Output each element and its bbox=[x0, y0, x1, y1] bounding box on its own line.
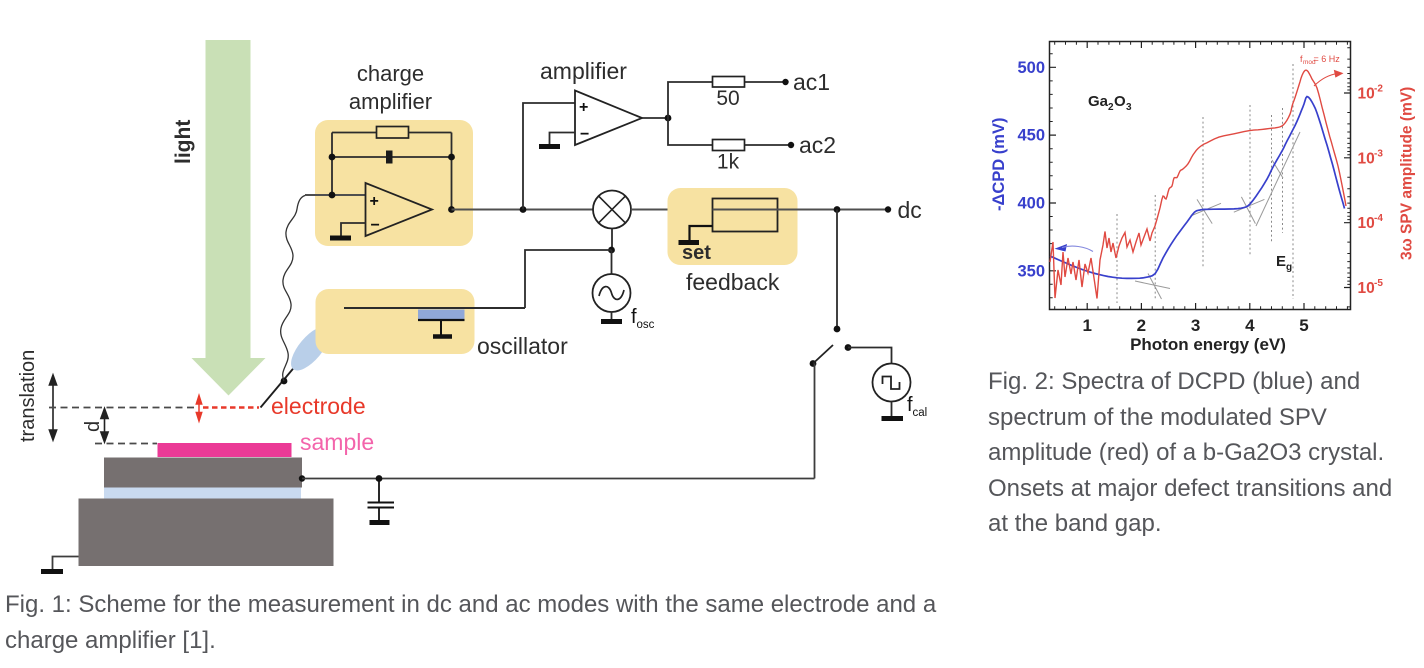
wire feedback left vertical bbox=[331, 133, 333, 196]
piezo bottom plate bbox=[418, 319, 465, 321]
wire sample to switch bbox=[302, 478, 815, 480]
dashed level line (sample height) bbox=[95, 443, 157, 445]
wire mixer to feedback bbox=[631, 209, 713, 211]
svg-text:+: + bbox=[579, 99, 588, 116]
svg-text:electrode: electrode bbox=[271, 393, 366, 419]
wire input to charge amp bbox=[305, 194, 366, 196]
wire feedback mid bbox=[332, 156, 452, 158]
node charge amp input bbox=[329, 192, 336, 199]
node dc branch bbox=[834, 206, 841, 213]
svg-text:E: E bbox=[1276, 253, 1286, 270]
svg-text:amplifier: amplifier bbox=[540, 58, 627, 84]
svg-text:400: 400 bbox=[1017, 195, 1045, 213]
wire feedback top bbox=[332, 132, 452, 134]
svg-text:450: 450 bbox=[1017, 127, 1045, 145]
wire U2 minus to ground bbox=[550, 133, 576, 145]
svg-text:amplifier: amplifier bbox=[349, 89, 432, 114]
y tick labels right bbox=[1358, 84, 1384, 298]
svg-text:ac1: ac1 bbox=[793, 69, 830, 95]
sample magenta slab bbox=[158, 443, 292, 457]
electrode red dashed line bbox=[203, 406, 259, 409]
x tick labels bbox=[1082, 316, 1308, 335]
capacitor ground bar bbox=[370, 520, 390, 525]
axis ticks left bbox=[1050, 67, 1057, 270]
set wire bbox=[690, 226, 713, 240]
svg-text:5: 5 bbox=[1299, 316, 1308, 335]
charge amplifier highlight box bbox=[315, 120, 473, 246]
svg-text:−: − bbox=[371, 217, 380, 234]
electrode arm wire bbox=[261, 308, 345, 408]
dashed onset verticals bbox=[1117, 64, 1293, 303]
svg-text:d: d bbox=[82, 421, 104, 432]
wire mixer bottom bbox=[611, 229, 613, 251]
y tick labels left bbox=[1017, 59, 1045, 281]
electrode holder ellipse bbox=[284, 320, 336, 376]
svg-text:oscillator: oscillator bbox=[477, 333, 568, 359]
wire U1 minus to ground bbox=[341, 223, 366, 236]
svg-text:1: 1 bbox=[1082, 316, 1091, 335]
node electrode junction bbox=[281, 378, 288, 385]
switch top contact bbox=[834, 326, 841, 333]
wire U2 output bbox=[642, 117, 668, 119]
wire main output bbox=[452, 209, 594, 211]
svg-text:2: 2 bbox=[1137, 316, 1146, 335]
svg-text:10: 10 bbox=[1358, 86, 1375, 103]
svg-text:dc: dc bbox=[898, 197, 922, 223]
svg-text:Ga: Ga bbox=[1088, 93, 1109, 110]
node tap to ac amplifier bbox=[520, 206, 527, 213]
wire feedback to dc bbox=[778, 209, 889, 211]
switch blade bbox=[813, 345, 833, 364]
wire side contact to fcal bbox=[848, 348, 892, 365]
source fosc bbox=[593, 274, 631, 312]
red gap double arrow bbox=[196, 396, 201, 422]
svg-text:1k: 1k bbox=[717, 151, 740, 174]
svg-text:set: set bbox=[682, 242, 711, 264]
piezo stub bbox=[440, 320, 442, 335]
axis ticks top bbox=[1087, 42, 1304, 49]
svg-text:charge: charge bbox=[357, 61, 424, 86]
piezo ground bar bbox=[433, 334, 452, 339]
svg-text:-2: -2 bbox=[1374, 84, 1383, 95]
capacitor Cf bbox=[386, 151, 393, 164]
stage ground wire bbox=[53, 557, 79, 571]
node oscillator junction bbox=[608, 247, 615, 254]
resistor 1k bbox=[713, 140, 745, 151]
svg-text:sample: sample bbox=[300, 429, 374, 455]
wire through feedback bbox=[713, 209, 778, 211]
feedback block bbox=[713, 199, 778, 232]
node feedback right bbox=[448, 154, 455, 161]
d double arrow bbox=[101, 409, 108, 443]
svg-text:3: 3 bbox=[1126, 102, 1132, 113]
svg-text:-4: -4 bbox=[1374, 213, 1383, 224]
node charge amp output bbox=[448, 206, 455, 213]
red SPV noisy curve bbox=[1050, 208, 1160, 299]
svg-text:10: 10 bbox=[1358, 215, 1375, 232]
svg-text:g: g bbox=[1286, 262, 1292, 273]
tangent marks bbox=[1135, 132, 1300, 299]
wire fosc to ground bbox=[611, 312, 613, 320]
red SPV smooth curve bbox=[1160, 70, 1346, 208]
terminal dc bbox=[885, 206, 891, 212]
source fcal bbox=[873, 364, 911, 402]
svg-text:3: 3 bbox=[1191, 316, 1200, 335]
node sample plate output bbox=[299, 475, 305, 481]
svg-text:-3: -3 bbox=[1374, 149, 1383, 160]
wire junction to electrode drive bbox=[525, 250, 612, 308]
svg-text:3ω SPV amplitude (mV): 3ω SPV amplitude (mV) bbox=[1399, 87, 1416, 260]
ground fcal bbox=[882, 416, 904, 421]
caption Fig.2 bbox=[988, 364, 1413, 542]
wire junction to source bbox=[611, 250, 613, 274]
wire switch pole down to sample line bbox=[814, 364, 816, 479]
svg-text:= 6 Hz: = 6 Hz bbox=[1314, 54, 1341, 64]
svg-text:cal: cal bbox=[913, 407, 928, 419]
svg-text:ac2: ac2 bbox=[799, 132, 836, 158]
svg-text:osc: osc bbox=[637, 319, 655, 331]
svg-text:O: O bbox=[1114, 93, 1126, 110]
svg-text:4: 4 bbox=[1245, 316, 1255, 335]
terminal ac1 bbox=[782, 79, 788, 85]
svg-text:10: 10 bbox=[1358, 151, 1375, 168]
wire to R 50 bbox=[668, 82, 786, 118]
switch pole bbox=[810, 360, 817, 367]
blue arrow annotation bbox=[1055, 244, 1068, 252]
dashed level line (electrode height) bbox=[49, 407, 194, 409]
svg-text:light: light bbox=[172, 120, 195, 164]
svg-text:translation: translation bbox=[17, 350, 39, 442]
svg-text:feedback: feedback bbox=[686, 269, 780, 295]
ground set bbox=[679, 240, 700, 245]
axis ticks right bbox=[1344, 93, 1351, 288]
wire fcal to ground bbox=[891, 402, 893, 418]
node feedback left bbox=[329, 154, 336, 161]
light beam arrow bbox=[192, 40, 266, 396]
caption Fig.1 bbox=[5, 587, 955, 658]
wire feedback right vertical bbox=[451, 133, 453, 210]
svg-text:-ΔCPD (mV): -ΔCPD (mV) bbox=[990, 118, 1008, 211]
blue DCPD curve bbox=[1050, 97, 1345, 279]
node ac splitter bbox=[665, 115, 672, 122]
terminal ac2 bbox=[788, 142, 794, 148]
mixer M1 bbox=[593, 191, 631, 229]
axis ticks bottom bbox=[1087, 303, 1304, 310]
svg-text:500: 500 bbox=[1017, 59, 1045, 77]
insulating blue layer bbox=[104, 488, 301, 499]
svg-text:+: + bbox=[370, 193, 379, 210]
svg-text:Photon energy (eV): Photon energy (eV) bbox=[1130, 335, 1286, 354]
svg-text:−: − bbox=[580, 126, 589, 143]
translation double arrow bbox=[49, 375, 56, 440]
svg-text:-5: -5 bbox=[1374, 278, 1383, 289]
stage ground bbox=[41, 569, 63, 574]
wire tap up to amplifier bbox=[523, 103, 575, 210]
svg-text:350: 350 bbox=[1017, 263, 1045, 281]
resistor Rf bbox=[377, 127, 409, 139]
wire to R 1k bbox=[668, 118, 791, 145]
capacitor C1 to ground bbox=[368, 479, 395, 521]
red arrow annotation bbox=[1314, 74, 1338, 87]
node capacitor tap bbox=[376, 475, 383, 482]
sample holder upper plate bbox=[104, 458, 302, 488]
oscillator highlight box bbox=[316, 289, 475, 354]
op-amp U1 bbox=[366, 183, 433, 236]
piezo plate blue bbox=[418, 310, 465, 320]
wire dc branch down bbox=[836, 210, 838, 330]
plot frame bbox=[1050, 42, 1351, 310]
svg-text:50: 50 bbox=[716, 87, 739, 110]
wire oscillator drive bbox=[344, 307, 525, 309]
squiggle wire to charge amplifier bbox=[281, 195, 316, 381]
resistor 50 bbox=[713, 77, 745, 88]
op-amp U2 bbox=[575, 91, 642, 146]
feedback highlight box bbox=[668, 188, 798, 265]
switch side contact bbox=[845, 344, 852, 351]
stage block bbox=[79, 499, 334, 567]
ground U1 bbox=[330, 236, 351, 241]
ground fosc bbox=[601, 319, 622, 324]
svg-text:10: 10 bbox=[1358, 280, 1375, 297]
ground U2 bbox=[539, 144, 560, 149]
